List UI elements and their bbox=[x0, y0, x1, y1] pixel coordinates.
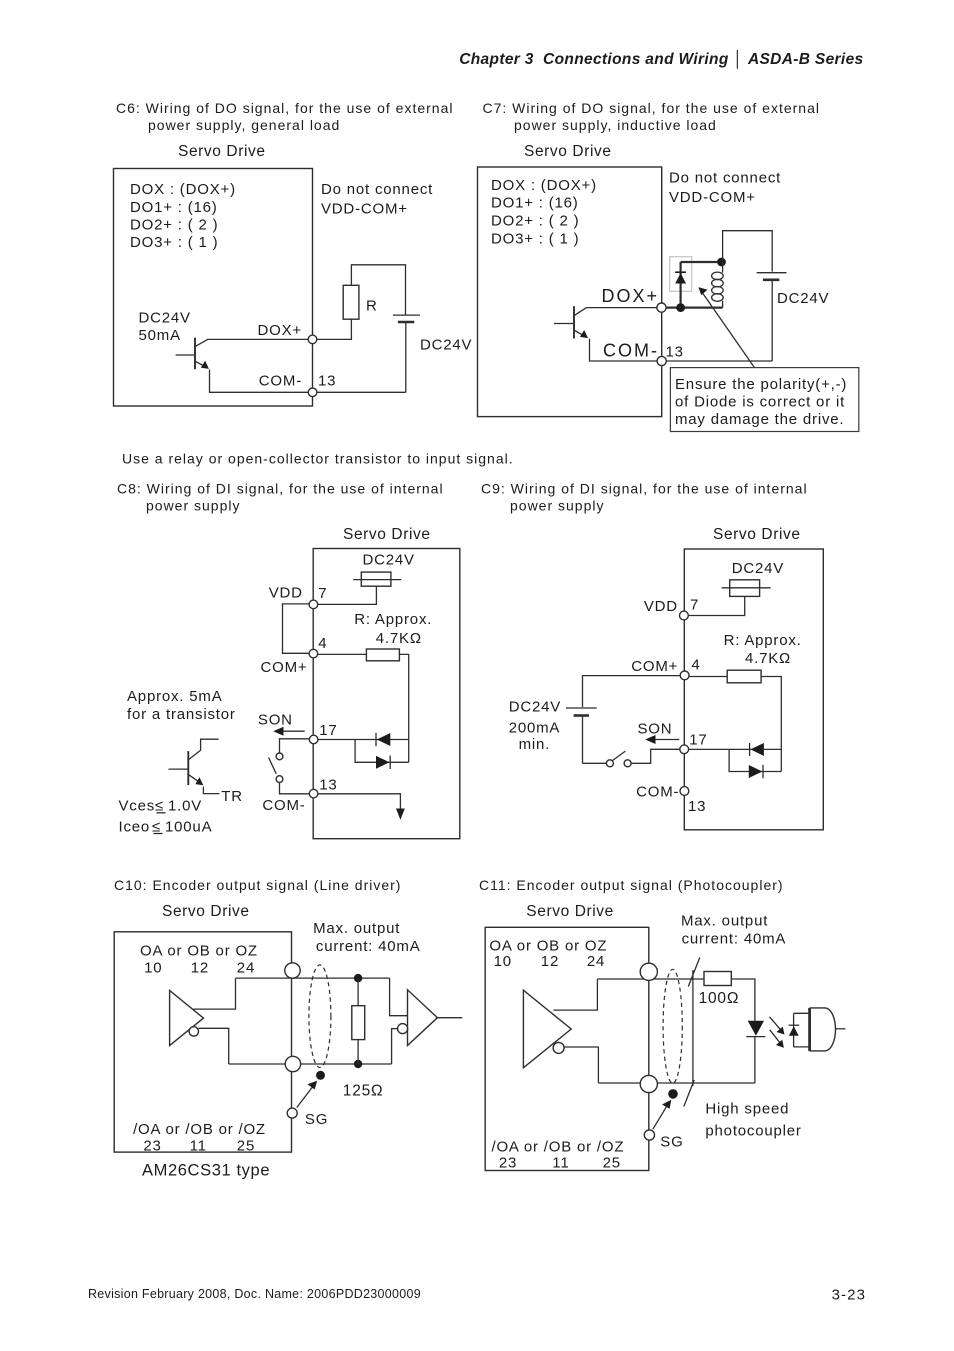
svg-text:C9: Wiring of DI signal, for t: C9: Wiring of DI signal, for the use of … bbox=[481, 481, 808, 497]
svg-text:AM26CS31 type: AM26CS31 type bbox=[142, 1162, 270, 1180]
arrowhead down bbox=[396, 809, 405, 820]
svg-text:R: Approx.: R: Approx. bbox=[724, 632, 802, 649]
svg-text:DOX : (DOX+): DOX : (DOX+) bbox=[130, 181, 236, 198]
wire driver - output bbox=[199, 1028, 229, 1064]
svg-text:11: 11 bbox=[190, 1137, 207, 1154]
wire switch to node17 bbox=[631, 749, 684, 763]
wire COM+ to battery bbox=[583, 676, 685, 708]
junction dot bottom bbox=[354, 1060, 362, 1068]
servo drive box U5 bbox=[114, 932, 291, 1152]
svg-text:≤: ≤ bbox=[155, 798, 164, 815]
wire jumper VDD to COM+ bbox=[283, 604, 314, 653]
svg-text:13: 13 bbox=[688, 798, 706, 815]
svg-text:SON: SON bbox=[638, 721, 673, 738]
wire photodiode stubs bbox=[794, 1012, 810, 1014]
node COM- 13 bbox=[308, 388, 317, 397]
svg-text:Do not connect: Do not connect bbox=[669, 169, 781, 186]
arrow from note to diode bbox=[698, 287, 754, 368]
svg-text:COM+: COM+ bbox=[261, 659, 308, 676]
svg-text:13: 13 bbox=[666, 343, 684, 360]
svg-text:125Ω: 125Ω bbox=[343, 1082, 384, 1099]
svg-text:25: 25 bbox=[237, 1137, 255, 1154]
svg-text:24: 24 bbox=[587, 953, 605, 970]
svg-text:50mA: 50mA bbox=[139, 327, 181, 344]
svg-text:13: 13 bbox=[318, 373, 336, 390]
wire emitter to COM- bbox=[210, 370, 313, 393]
arrow SG bbox=[653, 1100, 672, 1130]
transistor Q2 bbox=[554, 306, 588, 338]
svg-text:C11: Encoder output signal (Ph: C11: Encoder output signal (Photocoupler… bbox=[479, 877, 784, 893]
svg-text:17: 17 bbox=[319, 722, 337, 739]
diode D3 (lower) bbox=[376, 756, 390, 770]
svg-text:4.7KΩ: 4.7KΩ bbox=[745, 650, 791, 667]
wire supply to VDD node bbox=[684, 596, 745, 615]
resistor R (4.7K) bbox=[727, 670, 761, 683]
svg-text:C6: Wiring of DO signal, for t: C6: Wiring of DO signal, for the use of … bbox=[116, 100, 453, 116]
svg-text:current: 40mA: current: 40mA bbox=[682, 931, 787, 948]
svg-text:power supply, general load: power supply, general load bbox=[148, 117, 340, 133]
internal supply symbol bbox=[353, 572, 401, 586]
shield drain wire bbox=[692, 970, 694, 1086]
svg-text:DO3+ : ( 1 ): DO3+ : ( 1 ) bbox=[130, 234, 218, 251]
node DOX+ bbox=[308, 335, 317, 344]
svg-text:DC24V: DC24V bbox=[732, 560, 784, 577]
terminator resistor 125 ohm bbox=[352, 978, 365, 1064]
svg-text:23: 23 bbox=[499, 1154, 517, 1171]
pin circle top 24 bbox=[640, 963, 657, 980]
wire node17 to diode pair bbox=[314, 739, 409, 741]
wire battery to switch bbox=[583, 762, 607, 764]
wire receiver output bbox=[437, 1017, 462, 1019]
svg-text:13: 13 bbox=[319, 777, 337, 794]
wire node13 to ground arrow bbox=[314, 794, 401, 812]
wire resistor to diodes bbox=[761, 677, 781, 772]
warning note box bbox=[670, 368, 858, 432]
svg-text:VDD-COM+: VDD-COM+ bbox=[321, 201, 408, 218]
svg-text:C10: Encoder output signal (Li: C10: Encoder output signal (Line driver) bbox=[114, 877, 401, 893]
svg-text:DOX : (DOX+): DOX : (DOX+) bbox=[491, 177, 597, 194]
svg-text:Revision February 2008, Doc. N: Revision February 2008, Doc. Name: 2006P… bbox=[88, 1287, 421, 1301]
svg-text:200mA: 200mA bbox=[509, 719, 561, 736]
shield slash bottom bbox=[684, 1080, 694, 1107]
pin circle bottom 25 bbox=[640, 1075, 657, 1092]
switch S2 bbox=[606, 751, 631, 767]
wire DOX+ bbox=[586, 307, 661, 309]
wire COM+ to resistor bbox=[685, 676, 728, 678]
svg-text:DOX+: DOX+ bbox=[258, 322, 302, 339]
wire node17 to switch bbox=[280, 739, 314, 753]
arrow SON bbox=[645, 735, 679, 744]
wire bold diode top bbox=[681, 261, 722, 263]
svg-text:COM-: COM- bbox=[636, 784, 679, 801]
transistor Q1 bbox=[176, 338, 209, 370]
svg-text:Iceo: Iceo bbox=[119, 818, 151, 835]
shield ellipse bbox=[663, 969, 682, 1083]
svg-text:C8: Wiring of DI signal, for t: C8: Wiring of DI signal, for the use of … bbox=[117, 481, 444, 497]
svg-text:25: 25 bbox=[603, 1154, 621, 1171]
svg-text:4: 4 bbox=[691, 657, 700, 674]
svg-text:photocoupler: photocoupler bbox=[705, 1122, 801, 1139]
svg-text:VDD: VDD bbox=[644, 598, 678, 615]
servo drive box U2 bbox=[478, 167, 662, 417]
wire bold DOX+ to diode/coil bbox=[662, 307, 723, 309]
wire bottom pair bbox=[229, 1063, 392, 1065]
svg-text:OA or OB or OZ: OA or OB or OZ bbox=[140, 942, 258, 959]
svg-text:17: 17 bbox=[689, 731, 707, 748]
svg-text:DC24V: DC24V bbox=[509, 699, 561, 716]
wire resistor to LED bbox=[731, 979, 755, 1021]
wire resistor bottom bbox=[313, 319, 352, 339]
LED D6 bbox=[746, 1021, 765, 1083]
svg-text:12: 12 bbox=[541, 953, 559, 970]
diode D2 (upper) bbox=[376, 733, 390, 746]
line driver U6 bbox=[170, 991, 204, 1046]
svg-text:Servo Drive: Servo Drive bbox=[526, 903, 614, 920]
junction dot coil top bbox=[717, 258, 726, 267]
node 13 bbox=[309, 789, 318, 798]
svg-text:current: 40mA: current: 40mA bbox=[316, 938, 421, 955]
svg-text:DO2+ : ( 2 ): DO2+ : ( 2 ) bbox=[130, 217, 218, 234]
svg-text:3-23: 3-23 bbox=[832, 1287, 866, 1304]
svg-text:DOX+: DOX+ bbox=[601, 286, 659, 306]
svg-text:100Ω: 100Ω bbox=[699, 990, 740, 1007]
svg-text:DO1+ : (16): DO1+ : (16) bbox=[491, 195, 579, 212]
wire emitter to COM- bbox=[590, 339, 662, 361]
svg-text:Ensure the polarity(+,-): Ensure the polarity(+,-) bbox=[675, 376, 847, 393]
junction dot top bbox=[354, 974, 362, 982]
svg-text:SG: SG bbox=[305, 1111, 328, 1128]
wire resistor top loop bbox=[351, 265, 405, 315]
transistor TR bbox=[169, 739, 220, 793]
shield slash top bbox=[688, 958, 700, 987]
svg-text:/OA or /OB or /OZ: /OA or /OB or /OZ bbox=[492, 1139, 625, 1156]
gray box around diode bbox=[670, 257, 692, 292]
junction dot DOX+ bbox=[676, 303, 685, 312]
photodiode D7 bbox=[789, 1013, 800, 1047]
wire COM- to battery bbox=[662, 360, 773, 362]
diode D1 bbox=[675, 262, 686, 308]
wire DOX+ bbox=[207, 338, 313, 340]
wire COM+ to resistor bbox=[313, 653, 366, 655]
relay coil L1 bbox=[712, 262, 724, 308]
svg-text:7: 7 bbox=[690, 597, 699, 614]
svg-text:Vces: Vces bbox=[119, 798, 156, 815]
pin circle SG bbox=[644, 1130, 654, 1140]
svg-text:High speed: High speed bbox=[705, 1101, 789, 1118]
resistor 100 ohm bbox=[704, 972, 731, 986]
svg-text:Servo Drive: Servo Drive bbox=[343, 526, 431, 543]
svg-text:C7: Wiring of DO signal, for t: C7: Wiring of DO signal, for the use of … bbox=[483, 100, 820, 116]
svg-text:VDD-COM+: VDD-COM+ bbox=[669, 189, 756, 206]
servo drive box U1 bbox=[114, 169, 313, 407]
svg-text:SON: SON bbox=[258, 711, 293, 728]
svg-text:DC24V: DC24V bbox=[420, 337, 472, 354]
wire gate output bbox=[836, 1028, 846, 1030]
wire driver + output bbox=[194, 978, 236, 1009]
switch S1 bbox=[269, 753, 283, 782]
light arrows bbox=[770, 1017, 785, 1048]
wire top pair bbox=[236, 977, 390, 979]
wire diode lower branch bbox=[729, 749, 781, 771]
inverting bubble bbox=[553, 1042, 564, 1053]
resistor R (4.7K) bbox=[366, 649, 399, 661]
svg-text:of Diode is correct or it: of Diode is correct or it bbox=[675, 393, 845, 410]
svg-text:4.7KΩ: 4.7KΩ bbox=[376, 630, 422, 647]
svg-text:4: 4 bbox=[318, 635, 327, 652]
svg-text:for a transistor: for a transistor bbox=[127, 706, 236, 723]
arrow SON bbox=[273, 727, 305, 736]
node 13 bbox=[680, 787, 689, 796]
node 7 bbox=[680, 611, 689, 620]
pin circle SG bbox=[287, 1108, 297, 1118]
wire COM- to battery bbox=[313, 391, 406, 393]
svg-text:Chapter 3 Connections and Wir: Chapter 3 Connections and Wiring │ ASDA-… bbox=[459, 49, 863, 69]
node 7 bbox=[309, 600, 318, 609]
servo drive box U3 bbox=[313, 549, 460, 839]
resistor R bbox=[343, 285, 359, 319]
wire bottom pair bbox=[598, 1082, 755, 1084]
svg-text:Servo Drive: Servo Drive bbox=[524, 143, 612, 160]
svg-text:power supply: power supply bbox=[510, 498, 605, 514]
node 4 bbox=[680, 671, 689, 680]
svg-text:COM-: COM- bbox=[603, 340, 659, 360]
svg-text:DO2+ : ( 2 ): DO2+ : ( 2 ) bbox=[491, 213, 579, 230]
wire resistor to diodes bbox=[399, 654, 408, 762]
svg-text:12: 12 bbox=[191, 960, 209, 977]
svg-text:min.: min. bbox=[519, 736, 551, 753]
diode D5 (lower) bbox=[749, 765, 763, 779]
receiver inverting bubble bbox=[398, 1024, 408, 1034]
svg-text:11: 11 bbox=[552, 1154, 569, 1171]
svg-text:Servo Drive: Servo Drive bbox=[178, 143, 266, 160]
junction dot SG bbox=[668, 1089, 678, 1099]
svg-text:DO3+ : ( 1 ): DO3+ : ( 1 ) bbox=[491, 230, 579, 247]
wire top pair bbox=[597, 978, 704, 980]
svg-text:may damage the drive.: may damage the drive. bbox=[675, 411, 844, 428]
svg-text:COM-: COM- bbox=[262, 797, 305, 814]
svg-text:7: 7 bbox=[318, 585, 327, 602]
svg-text:Do not connect: Do not connect bbox=[321, 181, 433, 198]
wire driver - output bbox=[564, 1047, 598, 1083]
svg-text:VDD: VDD bbox=[269, 585, 303, 602]
junction dot SG bbox=[316, 1071, 325, 1080]
svg-text:COM-: COM- bbox=[259, 373, 302, 390]
receiver U7 bbox=[408, 990, 438, 1046]
svg-text:10: 10 bbox=[144, 960, 162, 977]
svg-text:R: Approx.: R: Approx. bbox=[354, 611, 432, 628]
svg-text:/OA or /OB or /OZ: /OA or /OB or /OZ bbox=[133, 1121, 266, 1138]
pin circle top 24 bbox=[285, 963, 300, 978]
wire supply to VDD node bbox=[313, 586, 376, 604]
servo drive box U8 bbox=[485, 927, 649, 1170]
battery B1 DC24V bbox=[393, 315, 420, 392]
svg-text:SG: SG bbox=[660, 1133, 683, 1150]
svg-text:1.0V: 1.0V bbox=[168, 798, 202, 815]
svg-text:≤: ≤ bbox=[152, 818, 161, 835]
svg-text:power supply, inductive load: power supply, inductive load bbox=[514, 117, 717, 133]
svg-text:Use a relay or open-collector: Use a relay or open-collector transistor… bbox=[122, 451, 514, 467]
battery B3 DC24V bbox=[566, 708, 597, 763]
svg-text:OA or OB or OZ: OA or OB or OZ bbox=[489, 937, 607, 954]
arrow SG bbox=[297, 1081, 317, 1108]
svg-text:R: R bbox=[366, 298, 378, 315]
shield ellipse bbox=[309, 965, 331, 1068]
wire diode lower branch bbox=[355, 740, 409, 763]
svg-text:100uA: 100uA bbox=[165, 818, 212, 835]
wire driver + output bbox=[553, 979, 597, 1010]
svg-text:power supply: power supply bbox=[146, 498, 241, 514]
node 17 bbox=[309, 735, 318, 744]
line driver U9 bbox=[523, 990, 571, 1068]
node DOX+ bbox=[657, 303, 666, 312]
svg-text:24: 24 bbox=[237, 960, 255, 977]
svg-text:Servo Drive: Servo Drive bbox=[713, 526, 801, 543]
internal supply symbol bbox=[722, 580, 771, 597]
pin circle bottom 25 bbox=[285, 1056, 300, 1071]
photologic gate U10 bbox=[810, 1008, 836, 1051]
inverting bubble bbox=[189, 1027, 198, 1036]
svg-text:23: 23 bbox=[143, 1137, 161, 1154]
node COM- 13 bbox=[657, 356, 666, 365]
wire switch to node13 bbox=[280, 783, 314, 794]
svg-text:10: 10 bbox=[494, 953, 512, 970]
servo drive box U4 bbox=[684, 549, 823, 830]
node 4 bbox=[309, 649, 318, 658]
wire to receiver + bbox=[390, 978, 408, 1016]
svg-text:Approx. 5mA: Approx. 5mA bbox=[127, 688, 223, 705]
svg-text:TR: TR bbox=[221, 788, 243, 805]
svg-text:Max. output: Max. output bbox=[681, 913, 768, 930]
diode D4 (upper) bbox=[750, 743, 764, 756]
svg-text:DC24V: DC24V bbox=[777, 290, 829, 307]
wire coil top to battery bbox=[723, 231, 773, 272]
node 17 bbox=[680, 745, 689, 754]
svg-text:COM+: COM+ bbox=[631, 658, 678, 675]
wire to receiver - bbox=[392, 1029, 398, 1064]
svg-text:DC24V: DC24V bbox=[139, 310, 191, 327]
wire node17 to diode pair bbox=[684, 748, 781, 750]
svg-text:DC24V: DC24V bbox=[363, 552, 415, 569]
svg-text:DO1+ : (16): DO1+ : (16) bbox=[130, 199, 218, 216]
svg-text:Servo Drive: Servo Drive bbox=[162, 903, 250, 920]
svg-text:Max. output: Max. output bbox=[313, 920, 400, 937]
battery B2 DC24V bbox=[757, 273, 787, 361]
